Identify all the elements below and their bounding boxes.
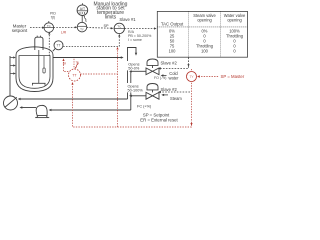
wire: master output to loading-station limiter (dashed)	[53, 26, 75, 28]
relay: red splitter circle	[187, 72, 197, 82]
node: opens 50-0% label	[127, 61, 143, 70]
node: split-range table	[157, 11, 247, 57]
pipe: jacket outlet line to header	[53, 57, 121, 59]
wire: signal to steam valve (dashed)	[160, 91, 190, 93]
svg-text:opening: opening	[227, 17, 242, 22]
svg-text:ER = External reset: ER = External reset	[140, 118, 178, 123]
svg-text:Slave #2: Slave #2	[161, 61, 178, 66]
svg-text:100: 100	[201, 48, 209, 53]
svg-text:FC (+%): FC (+%)	[137, 105, 152, 109]
valve V2: steam valve (bottom)	[147, 84, 158, 90]
node: opens 50-100% label	[126, 83, 145, 92]
relay: setpoint limiter circle	[77, 22, 87, 32]
wire: red connector to outlet pipe	[64, 61, 69, 72]
pipe: cold water valve outlet	[131, 70, 146, 72]
pump P2: centrifugal pump	[36, 105, 47, 115]
pipe: bottom supply line to pump	[51, 109, 131, 111]
svg-text:f(t): f(t)	[51, 16, 55, 20]
wire: TT to slave1 PV (dashed)	[63, 36, 119, 47]
valve V1: cold water valve (top)	[147, 59, 158, 65]
wire: red squiggle sensor connection	[75, 62, 78, 68]
svg-text:L/R: L/R	[61, 31, 67, 35]
pipe: vertical header A with hook	[128, 48, 137, 100]
svg-text:setpoint: setpoint	[12, 28, 28, 33]
pipe: recirculation return line	[20, 98, 128, 100]
component: agitator shaft and impeller	[38, 50, 40, 83]
svg-text:50-100%: 50-100%	[128, 89, 144, 93]
svg-text:TY: TY	[80, 28, 84, 32]
transmitter TT on reactor	[54, 41, 63, 50]
wire: master setpoint to master controller (dashed)	[30, 27, 43, 29]
svg-text:TT: TT	[56, 44, 60, 48]
wire: red external reset riser	[117, 49, 119, 127]
svg-text:FO (-%): FO (-%)	[154, 76, 166, 80]
svg-text:water: water	[168, 76, 179, 81]
svg-text:SP = Setpoint: SP = Setpoint	[143, 112, 170, 117]
svg-text:100: 100	[169, 48, 177, 53]
component: reactor vessel outer jacket	[16, 47, 53, 92]
svg-text:I = some: I = some	[128, 38, 142, 42]
wire: slave1 output (TAC) to table (dashed)	[125, 28, 155, 30]
svg-text:limits: limits	[105, 14, 117, 20]
svg-text:TAC Output: TAC Output	[161, 22, 184, 27]
svg-text:TT: TT	[72, 74, 76, 78]
pump P1: circulating pump circle with slash	[4, 96, 18, 110]
component: agitator motor housing	[35, 37, 43, 50]
svg-text:Slave #1: Slave #1	[119, 17, 136, 22]
pipe: pump discharge into circulating pump	[22, 107, 36, 109]
wire: red stub from TAC line to splitter	[191, 69, 193, 71]
wire: red sensor drop from pipe to TT	[73, 59, 75, 69]
wire: red loop TT down	[73, 83, 192, 128]
wire: adjustable link with squiggle	[81, 16, 83, 23]
pipe: cold water inlet arrow	[163, 75, 167, 77]
svg-text:Slave #2: Slave #2	[161, 87, 178, 92]
wire: reactor sensor to master PV (dashed vertical)	[48, 34, 50, 56]
svg-text:opening: opening	[197, 17, 212, 22]
wire: red SP=Master line	[199, 76, 220, 78]
svg-text:50-0%: 50-0%	[128, 67, 140, 71]
component: manual loading station HIC	[77, 5, 88, 16]
wire: red TT output to riser	[80, 73, 117, 75]
wire: TAC output down from table (dashed)	[160, 58, 189, 69]
component: thermowell in vessel	[43, 56, 45, 68]
svg-text:A/T: A/T	[80, 7, 85, 11]
pipe: steam valve outlet	[131, 95, 146, 97]
pipe: vertical header B	[130, 71, 132, 110]
pipe: steam inlet arrow	[163, 94, 168, 96]
svg-text:TE: TE	[76, 62, 79, 65]
svg-text:TC: TC	[47, 24, 51, 28]
component: reactor inner vessel	[19, 56, 50, 89]
svg-text:Steam: Steam	[170, 96, 182, 101]
svg-text:SP = Master: SP = Master	[221, 74, 245, 79]
svg-text:SP: SP	[103, 24, 109, 28]
transmitter TT jacket (red)	[69, 69, 81, 81]
wire: jacket inlet arrows	[11, 58, 14, 74]
